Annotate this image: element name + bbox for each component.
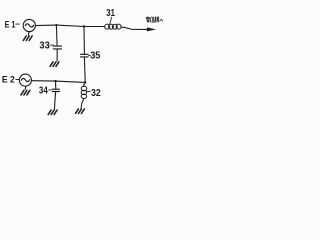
wire capacitor 33 to ground (56, 49, 58, 61)
wire node A down to capacitor 33 (55, 25, 58, 46)
wire capacitor 35 to node C (83, 57, 86, 82)
arrowhead to receiver (147, 27, 156, 31)
ground (33) (50, 62, 59, 67)
svg-text:31: 31 (106, 8, 115, 19)
wire node D down to capacitor 34 (55, 81, 57, 89)
wire top rail node A to node B (56, 25, 84, 26)
ground (E1) (23, 36, 32, 41)
svg-text:34: 34 (39, 85, 48, 96)
inductor 32 (81, 86, 87, 98)
svg-text:32: 32 (91, 88, 101, 99)
wire top rail E1 to node A (35, 24, 56, 27)
wire node C to inductor 32 (83, 82, 85, 86)
pointer line for label 31 (110, 17, 112, 24)
lead tick from E1 label to source (16, 23, 20, 25)
svg-text:E 1: E 1 (5, 18, 16, 29)
svg-text:33: 33 (39, 40, 50, 51)
wire inductor 32 to ground (81, 99, 84, 109)
inductor 31 (105, 24, 121, 29)
svg-text:35: 35 (90, 50, 101, 61)
kanji 信 (151, 17, 155, 23)
wire inductor 31 to arrow (121, 27, 147, 29)
ground (32) (75, 109, 84, 114)
lead tick from E2 label to source (16, 79, 19, 81)
annotation "to receiver" (受信機へ) (146, 17, 163, 23)
ground (34) (48, 110, 57, 115)
AC source E2 (19, 74, 31, 86)
wire E1 source to ground (27, 32, 30, 36)
node C junction (84, 81, 86, 83)
kana へ (160, 19, 163, 21)
ground (E2) (21, 90, 30, 95)
wire capacitor 34 to ground (55, 92, 56, 110)
lead tick label 33 (50, 44, 53, 46)
wire E2 source to ground (24, 86, 27, 89)
node D junction (54, 80, 56, 82)
lead tick label 34 (49, 89, 52, 91)
AC source E1 (23, 19, 35, 31)
wire node B to inductor 31 (84, 26, 105, 28)
lead tick label 35 (88, 55, 90, 57)
capacitor 35 (81, 54, 89, 57)
kanji 機 (155, 17, 159, 23)
lead tick label 32 (87, 91, 90, 93)
wire bottom rail E2 to node D (32, 80, 56, 82)
node B junction (83, 25, 85, 27)
node A junction (55, 24, 57, 26)
kanji 受 (146, 17, 150, 23)
wire bottom rail node D to node C (56, 81, 86, 82)
wire node B down to capacitor 35 (83, 27, 85, 55)
capacitor 33 (53, 46, 61, 49)
capacitor 34 (52, 89, 59, 91)
svg-text:E 2: E 2 (2, 74, 15, 85)
